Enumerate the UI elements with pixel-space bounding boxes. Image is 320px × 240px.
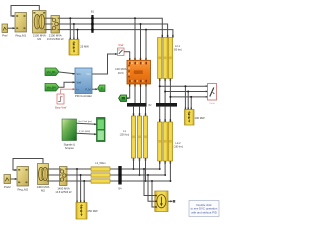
goto tag m (DVC measurement): [119, 87, 130, 102]
transmission line L1 (200 km): [120, 116, 148, 158]
wire Pref to Reg_M1: [8, 27, 15, 29]
svg-text:Fault: Fault: [210, 102, 215, 105]
svg-text:DVC: DVC: [118, 71, 124, 75]
svg-text:P_B1 (MW): P_B1 (MW): [79, 131, 91, 133]
bus bar B5 (above line L2-2): [156, 103, 177, 107]
constant Pm2 (bottom-left): [4, 175, 11, 190]
from tag Vm_B4: [45, 81, 75, 91]
line L3 50 km (series): [91, 161, 110, 183]
svg-text:M2: M2: [41, 189, 45, 193]
wire PID output to manual switch: [92, 53, 118, 74]
svg-text:L2-2: L2-2: [175, 141, 181, 145]
wire lower bus phase A: [67, 168, 160, 170]
wires M2 to T2 (3 phases): [49, 169, 60, 181]
wire phase B top bus: [60, 24, 168, 38]
svg-text:L2-1: L2-1: [175, 44, 181, 48]
wire lower bus phase B: [67, 174, 165, 176]
wire drops to equivalent source: [143, 168, 155, 207]
load 100 MW: [185, 108, 205, 126]
svg-text:Pref: Pref: [2, 33, 7, 37]
wire Pm2 to Reg_M2: [11, 178, 18, 180]
annotation Double click note: [189, 201, 219, 217]
three-phase fault breaker: [208, 84, 217, 106]
transmission line L2-2 (180 km): [158, 107, 184, 161]
step block Step Vref: [55, 88, 75, 109]
wire L2-1 bottom columns to bus bar: [159, 79, 171, 104]
svg-text:(180 km): (180 km): [174, 145, 184, 148]
transmission line L2-1 (90 km): [158, 35, 183, 79]
svg-text:B1: B1: [91, 10, 95, 14]
manual switch Vref/PID: [118, 43, 125, 56]
svg-text:(200 km): (200 km): [120, 133, 130, 136]
PID controller block: [75, 68, 92, 98]
wire taps to fault breaker: [159, 85, 208, 98]
wire drops from bus to DVC terminals: [134, 17, 147, 60]
wire L2-2 bottom columns to lower bus: [159, 161, 172, 182]
svg-text:25 MW: 25 MW: [80, 45, 89, 49]
svg-text:M1: M1: [37, 37, 41, 41]
svg-text:Vref: Vref: [77, 80, 82, 84]
DVC converter block (100 MVA): [115, 58, 150, 87]
subsystem Signals and Scopes: [62, 119, 77, 150]
svg-text:250 MW: 250 MW: [87, 209, 97, 213]
wire drops to load 100 MW: [184, 85, 192, 109]
svg-text:Reg_M2: Reg_M2: [18, 188, 29, 192]
wire taps to load 250 MW: [76, 168, 85, 203]
svg-text:P_M: P_M: [85, 87, 90, 91]
svg-text:Vm_B1: Vm_B1: [47, 70, 56, 74]
wires M1 to T1 (3 phases): [46, 18, 51, 29]
svg-text:L3_50km: L3_50km: [95, 161, 106, 165]
synchronous machine M2 (1400 MVA): [37, 164, 50, 193]
svg-text:13.8 kV/500 kV: 13.8 kV/500 kV: [47, 38, 64, 41]
wire P_B1 to scope: [77, 131, 97, 135]
svg-text:(90 km): (90 km): [174, 48, 182, 51]
constant Pref (turbine power reference, top-left): [2, 24, 8, 37]
svg-text:Reg_M1: Reg_M1: [16, 33, 27, 37]
svg-text:2100 MVA: 2100 MVA: [49, 33, 62, 37]
three-phase equivalent source: [155, 191, 168, 212]
wire DVC bottom phases down to bus bar B2: [135, 87, 146, 104]
bus bar B1: [91, 10, 95, 33]
transformer T1 (2100 MVA 13.8 kV/500 kV): [47, 16, 64, 42]
regulator Reg_M2: [17, 167, 29, 192]
load 250 MW: [76, 200, 98, 219]
wire manual switch to DVC control pin: [124, 52, 130, 58]
svg-text:Signals &: Signals &: [64, 142, 76, 146]
svg-text:PID Controller: PID Controller: [75, 94, 92, 98]
svg-text:13.8 kV/500 kV: 13.8 kV/500 kV: [55, 191, 72, 194]
synchronous machine M1 (2100 MVA): [33, 11, 47, 42]
bus bar B4: [118, 166, 122, 191]
svg-text:Pref2: Pref2: [4, 185, 11, 189]
wire phase A top bus: [60, 18, 163, 37]
wire taps to load 25MW: [69, 17, 78, 39]
feedback wire loop M1 to Reg_M1: [11, 6, 39, 18]
feedback wire loop M2 to Reg_M2: [13, 159, 43, 172]
svg-text:100 MW: 100 MW: [194, 116, 204, 120]
svg-text:Out: Out: [86, 72, 90, 76]
load 25 MW (B1 bus): [69, 38, 89, 55]
svg-text:Vm_B4: Vm_B4: [47, 86, 56, 90]
wire L1 bottom pins to lower bus: [133, 158, 147, 182]
wire phase C top bus: [60, 30, 173, 38]
wire Vm1 Vref to scope: [77, 120, 97, 125]
wire B2 bar to L1 top pins: [133, 107, 146, 116]
svg-text:Vm: Vm: [77, 72, 81, 76]
goto tag P output of PID: [92, 85, 105, 92]
svg-text:1400 MVA: 1400 MVA: [57, 187, 70, 191]
transformer T2 (1400 MVA 13.8 kV/500 kV): [55, 167, 72, 195]
svg-text:Scopes: Scopes: [65, 146, 75, 150]
scope block: [97, 118, 106, 142]
wire source output to B3: [168, 200, 175, 203]
regulator Reg_M1: [15, 13, 27, 38]
svg-text:Vm1 Vref (pu): Vm1 Vref (pu): [78, 120, 92, 123]
svg-text:Step Vref: Step Vref: [55, 106, 67, 110]
svg-text:with and without PID: with and without PID: [191, 211, 217, 215]
bus bar B2 (above line L1): [127, 103, 152, 107]
goto tag Vm_B1: [45, 68, 75, 76]
svg-text:Vref: Vref: [118, 43, 123, 47]
wire lower bus phase C: [67, 180, 170, 182]
